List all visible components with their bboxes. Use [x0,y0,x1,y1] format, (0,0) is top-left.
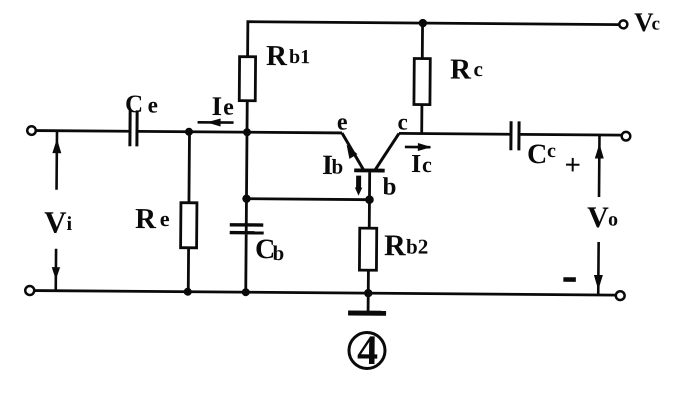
svg-text:R: R [384,229,406,262]
svg-text:R: R [450,54,472,86]
svg-text:e: e [337,110,348,136]
svg-text:c: c [474,57,484,81]
svg-text:b2: b2 [406,234,428,258]
svg-text:R: R [266,40,288,72]
svg-text:b: b [382,173,396,200]
svg-text:b1: b1 [289,46,310,68]
svg-text:b: b [331,154,343,178]
svg-text:o: o [608,209,618,231]
svg-text:e: e [223,95,234,121]
svg-text:i: i [66,213,72,235]
svg-text:e: e [160,206,170,231]
svg-text:V: V [587,201,609,234]
svg-text:C: C [527,139,547,170]
svg-text:V: V [44,205,67,240]
svg-text:c: c [422,152,432,177]
svg-text:c: c [547,140,556,162]
svg-text:I: I [211,91,222,121]
svg-text:c: c [397,109,407,134]
svg-text:R: R [135,203,157,235]
svg-text:e: e [148,93,158,118]
svg-text:b: b [272,241,284,265]
svg-text:c: c [651,13,660,34]
svg-text:4: 4 [357,328,378,374]
svg-text:+: + [564,149,581,181]
svg-text:C: C [125,91,143,118]
svg-text:I: I [411,149,421,178]
